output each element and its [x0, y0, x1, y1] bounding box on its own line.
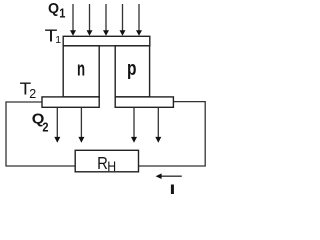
- svg-text:2: 2: [42, 119, 48, 134]
- svg-text:H: H: [107, 158, 116, 174]
- svg-text:I: I: [170, 182, 176, 198]
- svg-text:Q: Q: [48, 1, 59, 17]
- svg-text:2: 2: [29, 87, 36, 101]
- svg-text:n: n: [77, 58, 85, 80]
- svg-text:1: 1: [55, 34, 61, 46]
- svg-text:R: R: [97, 154, 108, 174]
- svg-text:1: 1: [59, 6, 65, 21]
- svg-text:p: p: [127, 57, 137, 79]
